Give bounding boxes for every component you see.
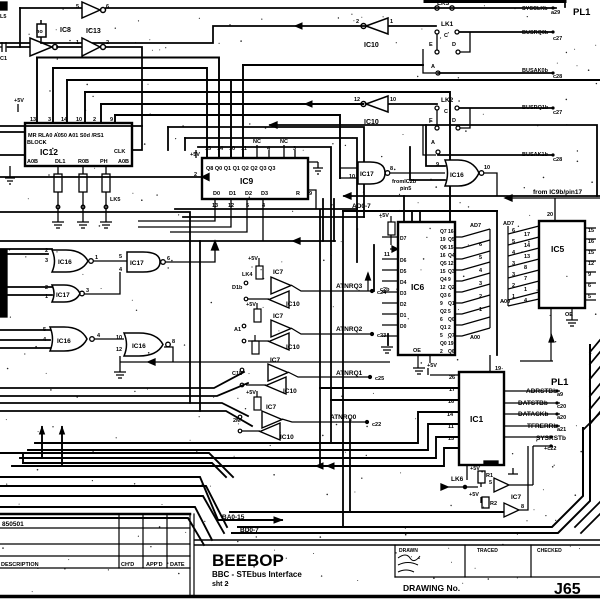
svg-text:1: 1 [76,40,79,46]
svg-text:1: 1 [512,294,515,300]
svg-text:c22: c22 [372,422,381,428]
svg-text:5: 5 [43,327,46,333]
svg-text:6: 6 [448,293,451,299]
svg-text:D3: D3 [261,191,268,197]
svg-text:17: 17 [524,232,530,238]
svg-text:IC5: IC5 [551,244,565,254]
svg-text:11: 11 [384,252,390,258]
svg-text:16: 16 [448,399,454,405]
svg-text:sht 2: sht 2 [212,581,228,588]
svg-text:3: 3 [512,272,515,278]
svg-text:1: 1 [524,287,527,293]
svg-text:5: 5 [76,4,79,10]
svg-text:D0: D0 [400,324,407,330]
svg-text:8: 8 [390,166,393,172]
svg-text:IC16: IC16 [450,172,464,179]
svg-text:TRACED: TRACED [477,548,498,554]
svg-text:c2b: c2b [380,287,390,293]
svg-text:IC10: IC10 [280,434,294,441]
svg-text:PL1: PL1 [551,377,569,388]
svg-text:D1: D1 [400,313,407,319]
svg-text:LK6: LK6 [451,476,464,483]
svg-text:15: 15 [448,436,454,442]
svg-text:BEEBOP: BEEBOP [212,551,284,570]
svg-text:15: 15 [440,269,446,275]
svg-text:A: A [431,64,435,70]
svg-text:IC16: IC16 [132,343,146,350]
svg-text:R: R [296,191,300,197]
svg-text:R0B: R0B [78,159,89,165]
svg-text:2: 2 [448,325,451,331]
svg-text:Q4: Q4 [448,253,455,259]
svg-text:2: 2 [106,40,109,46]
svg-text:D1: D1 [229,191,236,197]
svg-text:10: 10 [76,117,82,123]
svg-text:Q2: Q2 [440,309,447,315]
svg-text:2: 2 [356,19,359,25]
svg-text:DATE: DATE [170,562,185,568]
svg-text:CHECKED: CHECKED [537,548,562,554]
svg-text:OE: OE [413,348,421,354]
svg-text:a20: a20 [557,415,566,421]
svg-text:Q5: Q5 [440,261,447,267]
svg-text:BUSAK1b: BUSAK1b [522,152,549,158]
svg-text:IC9: IC9 [240,176,254,186]
svg-text:IC7: IC7 [273,313,284,320]
svg-text:c27: c27 [553,36,562,42]
svg-text:2: 2 [512,283,515,289]
svg-text:pin5: pin5 [400,186,411,192]
svg-text:D1b: D1b [232,285,243,291]
svg-text:9: 9 [440,301,443,307]
svg-text:J65: J65 [554,581,581,598]
svg-text:TFRERRb: TFRERRb [527,423,557,430]
svg-text:12: 12 [116,347,122,353]
svg-text:BUSRQ1b: BUSRQ1b [522,105,549,111]
svg-text:10: 10 [116,335,122,341]
svg-text:LK5: LK5 [110,197,120,203]
svg-text:D: D [452,42,456,48]
svg-text:Q1: Q1 [440,325,447,331]
svg-text:ATNRQ2: ATNRQ2 [336,326,363,333]
svg-text:1: 1 [45,294,48,300]
svg-text:LK2: LK2 [441,97,454,104]
svg-text:+5V: +5V [379,213,389,219]
svg-text:C: C [444,109,448,115]
svg-text:6: 6 [588,283,591,289]
svg-text:2: 2 [194,172,197,178]
svg-text:ATNRQ1: ATNRQ1 [336,370,363,377]
svg-text:15: 15 [448,245,454,251]
svg-text:9: 9 [448,277,451,283]
svg-text:IC12: IC12 [40,147,58,157]
svg-text:C1b: C1b [232,371,243,377]
svg-text:10: 10 [229,146,235,152]
svg-text:26: 26 [449,375,455,381]
svg-text:15: 15 [588,250,594,256]
svg-text:3: 3 [45,258,48,264]
svg-text:DESCRIPTION: DESCRIPTION [1,562,39,568]
svg-text:6: 6 [512,228,515,234]
svg-text:LK4: LK4 [242,272,253,278]
svg-text:C: C [444,33,448,39]
svg-text:DL1: DL1 [55,159,65,165]
svg-text:5: 5 [448,309,451,315]
svg-text:Q3: Q3 [440,293,447,299]
svg-text:IC13: IC13 [86,28,101,35]
svg-text:D0: D0 [213,191,220,197]
svg-text:CH'D: CH'D [121,562,134,568]
svg-text:6: 6 [167,256,170,262]
svg-text:IC7: IC7 [273,269,284,276]
svg-text:2: 2 [45,285,48,291]
svg-text:6: 6 [106,4,109,10]
svg-text:Q8 Q0 Q1 Q1 Q2 Q2 Q3 Q3: Q8 Q0 Q1 Q1 Q2 Q2 Q3 Q3 [206,166,275,172]
svg-text:DRAWN: DRAWN [399,548,418,554]
svg-text:IC17: IC17 [360,171,374,178]
svg-text:no: no [36,29,43,35]
svg-text:13: 13 [524,254,530,260]
svg-text:DRAWING No.: DRAWING No. [403,583,460,593]
svg-text:19: 19 [440,237,446,243]
svg-text:2: 2 [93,117,96,123]
svg-text:IC8: IC8 [60,27,71,34]
svg-text:11: 11 [241,146,247,152]
svg-text:c28: c28 [553,157,562,163]
svg-text:10: 10 [349,174,355,180]
svg-text:BUSAK0b: BUSAK0b [522,68,549,74]
svg-text:Q0: Q0 [440,341,447,347]
svg-text:E: E [429,42,433,48]
svg-text:1: 1 [95,255,98,261]
svg-text:CLK: CLK [114,149,125,155]
svg-text:5: 5 [588,294,591,300]
svg-text:2: 2 [440,349,443,355]
svg-text:Q6: Q6 [448,349,455,355]
svg-text:14: 14 [524,243,531,249]
svg-text:+5V: +5V [470,466,480,472]
svg-text:LK3: LK3 [437,0,450,7]
svg-text:c20: c20 [557,404,566,410]
svg-text:+5V: +5V [246,390,256,396]
svg-text:15: 15 [588,228,594,234]
svg-text:12: 12 [354,97,360,103]
svg-text:A00: A00 [470,335,480,341]
svg-text:7: 7 [524,276,527,282]
svg-text:5: 5 [479,255,482,261]
svg-text:Q1: Q1 [448,301,455,307]
svg-text:3: 3 [86,288,89,294]
svg-text:R1: R1 [486,473,493,479]
svg-text:+5V: +5V [469,492,479,498]
svg-text:fromIC2b: fromIC2b [392,179,417,185]
svg-text:IC7: IC7 [511,494,522,501]
svg-text:A: A [431,140,435,146]
svg-text:SYSCLKb: SYSCLKb [522,6,548,12]
svg-text:+5V: +5V [248,256,258,262]
svg-text:IC10: IC10 [286,301,300,308]
svg-text:12: 12 [448,261,454,267]
svg-text:ATNRQ3: ATNRQ3 [336,283,363,290]
svg-text:A0B: A0B [118,159,129,165]
svg-text:9: 9 [436,162,439,168]
svg-text:9: 9 [110,117,113,123]
svg-text:Q2: Q2 [448,285,455,291]
svg-text:3: 3 [48,117,51,123]
svg-text:12: 12 [440,285,446,291]
svg-text:L5: L5 [0,14,6,20]
svg-text:19: 19 [448,341,454,347]
svg-text:D2: D2 [400,302,407,308]
svg-text:850501: 850501 [2,521,24,528]
svg-text:D4: D4 [400,280,407,286]
svg-text:14: 14 [61,117,68,123]
svg-text:a21: a21 [557,427,566,433]
svg-text:BUSRQ0b: BUSRQ0b [522,30,549,36]
svg-text:8: 8 [524,265,527,271]
svg-text:IC6: IC6 [411,282,425,292]
svg-text:2: 2 [45,248,48,254]
svg-text:c25: c25 [375,376,384,382]
svg-text:MR RLA0 A050 A01 S0d /RS1: MR RLA0 A050 A01 S0d /RS1 [28,133,104,139]
svg-text:from IC9b/pin17: from IC9b/pin17 [533,189,583,196]
svg-text:D3: D3 [400,291,407,297]
svg-text:DATSTBb: DATSTBb [518,400,548,407]
svg-text:17: 17 [449,387,455,393]
svg-text:BLOCK: BLOCK [27,140,47,146]
svg-text:PL1: PL1 [573,7,591,18]
svg-text:A1: A1 [234,327,241,333]
svg-text:OE: OE [565,312,573,318]
svg-text:c27: c27 [553,110,562,116]
svg-text:D: D [452,118,456,124]
svg-text:16: 16 [440,253,446,259]
svg-text:+5V: +5V [14,98,24,104]
svg-text:16: 16 [448,229,454,235]
svg-text:15: 15 [205,146,211,152]
svg-text:APP'D: APP'D [146,562,163,568]
svg-text:Q5: Q5 [448,237,455,243]
svg-text:+5V: +5V [190,152,200,158]
svg-text:1: 1 [479,307,482,313]
svg-text:5: 5 [512,239,515,245]
svg-text:Q4: Q4 [440,277,447,283]
svg-text:Q6: Q6 [440,245,447,251]
svg-text:LK1: LK1 [441,21,454,28]
svg-text:Q7: Q7 [440,229,447,235]
svg-text:NC: NC [253,139,261,145]
svg-text:13: 13 [30,117,36,123]
svg-text:BD0-7: BD0-7 [240,527,259,534]
svg-text:IC17: IC17 [56,292,70,299]
svg-text:AD0-7: AD0-7 [352,203,371,210]
svg-text:5: 5 [440,333,443,339]
svg-text:12: 12 [588,261,594,267]
svg-text:IC7: IC7 [266,404,277,411]
svg-text:8: 8 [172,339,175,345]
svg-text:6: 6 [479,242,482,248]
svg-text:Q0: Q0 [448,317,455,323]
svg-text:IC16: IC16 [58,259,72,266]
svg-text:IC7: IC7 [270,357,281,364]
svg-text:E: E [429,118,433,124]
svg-text:3: 3 [479,281,482,287]
svg-text:9: 9 [588,272,591,278]
svg-text:10: 10 [484,165,490,171]
svg-text:2: 2 [479,294,482,300]
svg-text:9: 9 [309,191,312,197]
svg-text:A0B: A0B [27,159,38,165]
svg-text:IC17: IC17 [130,260,144,267]
svg-text:Q3: Q3 [448,269,455,275]
svg-text:DATACKb: DATACKb [518,411,548,418]
svg-text:10: 10 [390,97,396,103]
svg-text:16: 16 [588,239,594,245]
svg-text:19: 19 [495,366,501,372]
svg-text:IC10: IC10 [283,388,297,395]
svg-text:D7: D7 [400,236,407,242]
svg-text:IC1: IC1 [470,414,484,424]
svg-text:5: 5 [119,254,122,260]
svg-text:BBC - STEbus Interface: BBC - STEbus Interface [212,570,302,579]
svg-text:c28: c28 [553,74,562,80]
svg-text:AD7: AD7 [470,223,481,229]
svg-text:IC10: IC10 [364,119,379,126]
svg-text:ADRSTBb: ADRSTBb [526,388,557,395]
svg-text:a9: a9 [557,392,563,398]
svg-text:D6: D6 [400,258,407,264]
svg-text:14: 14 [447,412,454,418]
svg-text:1: 1 [390,19,393,25]
svg-text:11: 11 [448,424,454,430]
svg-text:IC10: IC10 [286,344,300,351]
svg-text:8: 8 [521,504,524,510]
svg-text:2M: 2M [233,418,241,424]
svg-text:6: 6 [440,317,443,323]
svg-text:BA0-15: BA0-15 [222,514,245,521]
svg-text:IC16: IC16 [57,338,71,345]
svg-text:20: 20 [547,212,553,218]
svg-text:D5: D5 [400,269,407,275]
svg-text:14: 14 [217,146,224,152]
svg-text:A00: A00 [500,299,510,305]
svg-text:PH: PH [100,159,108,165]
svg-text:AD7: AD7 [503,221,514,227]
svg-text:C1: C1 [0,56,7,62]
svg-text:IC10: IC10 [364,42,379,49]
svg-text:ATNRQ0: ATNRQ0 [330,414,357,421]
svg-text:3: 3 [512,261,515,267]
svg-text:5: 5 [489,480,492,486]
svg-text:Q7: Q7 [448,333,455,339]
svg-text:D2: D2 [245,191,252,197]
svg-text:a29: a29 [551,10,560,16]
svg-text:+5V: +5V [246,302,256,308]
svg-text:NC: NC [280,139,288,145]
svg-text:R2: R2 [490,501,497,507]
